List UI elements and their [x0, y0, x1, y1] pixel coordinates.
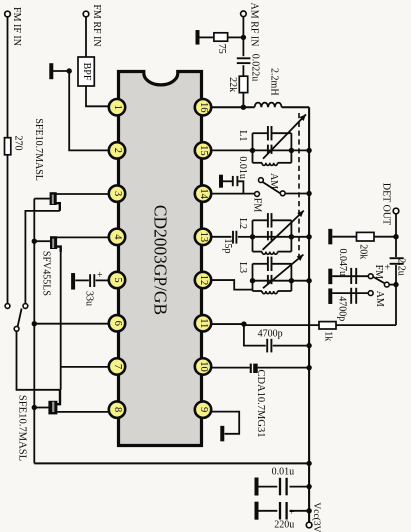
svg-text:16: 16: [198, 102, 209, 113]
svg-text:75: 75: [216, 44, 227, 54]
svg-text:11: 11: [198, 318, 209, 328]
svg-text:15p: 15p: [222, 239, 233, 254]
svg-text:FM: FM: [252, 198, 263, 213]
svg-text:3: 3: [112, 191, 123, 196]
svg-text:0.01u: 0.01u: [272, 466, 295, 477]
svg-text:BPF: BPF: [81, 63, 92, 81]
svg-text:14: 14: [198, 188, 209, 199]
svg-text:9: 9: [198, 407, 209, 412]
svg-text:FM IF IN: FM IF IN: [11, 7, 22, 46]
svg-text:8: 8: [112, 407, 123, 412]
svg-text:2: 2: [112, 148, 123, 153]
svg-text:AM RF IN: AM RF IN: [248, 3, 259, 47]
svg-text:22k: 22k: [227, 77, 238, 92]
svg-text:+: +: [289, 507, 294, 517]
svg-text:AM: AM: [374, 291, 385, 307]
svg-text:5: 5: [112, 277, 123, 282]
svg-text:2.2mH: 2.2mH: [268, 68, 279, 96]
svg-text:L1: L1: [237, 130, 248, 141]
svg-text:DET OUT: DET OUT: [380, 183, 391, 225]
svg-text:7: 7: [112, 364, 123, 369]
svg-text:1k: 1k: [322, 331, 333, 341]
svg-text:2.2u: 2.2u: [396, 258, 407, 276]
svg-text:L2: L2: [237, 218, 248, 229]
svg-text:20k: 20k: [358, 244, 369, 259]
svg-text:33u: 33u: [84, 291, 95, 306]
svg-text:Vcc(3V): Vcc(3V): [311, 502, 322, 532]
svg-text:15: 15: [198, 145, 209, 156]
svg-text:0.022u: 0.022u: [249, 54, 260, 82]
svg-text:CD2003GP/GB: CD2003GP/GB: [150, 205, 170, 315]
svg-text:4700p: 4700p: [337, 296, 348, 321]
svg-text:270: 270: [12, 136, 23, 151]
svg-text:4700p: 4700p: [258, 328, 283, 339]
svg-text:1: 1: [112, 105, 123, 110]
svg-text:0.047u: 0.047u: [337, 249, 348, 277]
svg-text:L3: L3: [237, 262, 248, 273]
svg-text:12: 12: [198, 275, 209, 286]
svg-text:SFV455LS: SFV455LS: [41, 251, 52, 296]
svg-text:+: +: [97, 270, 103, 281]
svg-text:SFE10.7MASL: SFE10.7MASL: [33, 118, 44, 181]
svg-text:+: +: [384, 262, 390, 273]
svg-text:13: 13: [198, 232, 209, 243]
svg-text:6: 6: [112, 321, 123, 326]
svg-text:FM: FM: [373, 265, 384, 280]
svg-text:220u: 220u: [274, 519, 294, 530]
svg-text:FM RF IN: FM RF IN: [91, 4, 102, 46]
svg-text:0.01u: 0.01u: [237, 156, 248, 179]
svg-text:CDA10.7MG31: CDA10.7MG31: [255, 370, 266, 438]
svg-text:4: 4: [112, 234, 123, 240]
svg-text:AM: AM: [268, 173, 279, 189]
svg-text:10: 10: [198, 361, 209, 372]
svg-text:SFE10.7MASL: SFE10.7MASL: [16, 395, 27, 461]
